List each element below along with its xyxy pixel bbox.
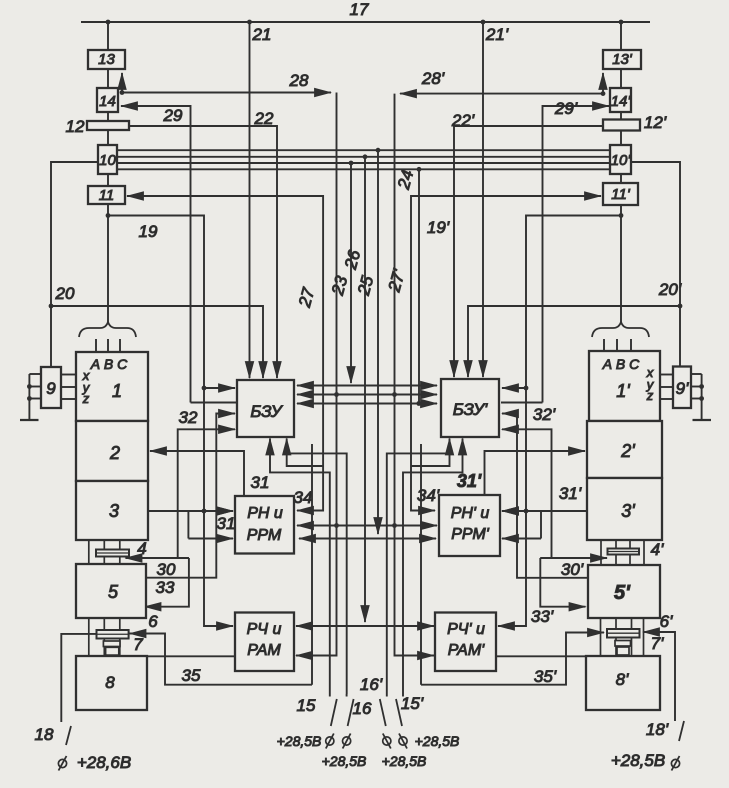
svg-text:14': 14' bbox=[611, 93, 632, 110]
svg-text:15': 15' bbox=[401, 694, 424, 713]
wire 28' horizontal bbox=[400, 93, 603, 95]
svg-text:22': 22' bbox=[451, 111, 475, 130]
cross line 525 arrow into RN' i RRM' bbox=[415, 525, 437, 527]
cross line B between BZU and BZU' bbox=[297, 394, 437, 396]
svg-text:29: 29 bbox=[163, 106, 183, 125]
block RN i RRM bbox=[235, 496, 294, 554]
svg-text:РН и: РН и bbox=[247, 505, 283, 522]
box 9' input taps bbox=[660, 374, 702, 399]
box 14' bbox=[610, 88, 631, 112]
svg-text:33': 33' bbox=[531, 607, 554, 626]
box 8' bbox=[586, 656, 660, 710]
label xyz in box 1' bbox=[646, 365, 655, 403]
coupling 4 stubs bbox=[89, 540, 120, 564]
box 13 bbox=[88, 50, 125, 69]
box 9 input taps bbox=[29, 374, 76, 399]
wire 20' bbox=[468, 306, 680, 377]
label RCh i RAM bbox=[247, 621, 282, 659]
wire 20 bbox=[51, 306, 263, 378]
coupling 7' small block bbox=[617, 647, 629, 655]
wire 21 bbox=[249, 22, 251, 378]
svg-text:19': 19' bbox=[427, 218, 450, 237]
wire 18' arrow into clutch 6' bbox=[643, 631, 658, 633]
ground left bbox=[20, 374, 39, 420]
wire 19' bbox=[498, 216, 621, 627]
wire 15 to BZU bottom bbox=[270, 439, 330, 695]
block RN' i RRM' bbox=[439, 495, 500, 556]
block BZU bbox=[237, 380, 294, 437]
wire 26 bbox=[364, 157, 366, 622]
svg-text:14: 14 bbox=[99, 93, 116, 110]
svg-text:16': 16' bbox=[360, 675, 383, 694]
bus of four lines between box 10 and box 10' bbox=[117, 150, 610, 169]
svg-text:22: 22 bbox=[254, 109, 274, 128]
svg-text:РН' и: РН' и bbox=[451, 505, 490, 522]
wire 4 arrow to clutch bbox=[126, 557, 189, 559]
svg-text:+28,5В: +28,5В bbox=[322, 753, 367, 769]
svg-text:29': 29' bbox=[554, 99, 578, 118]
wire 25 bbox=[377, 150, 379, 534]
switch 18' bbox=[671, 721, 684, 771]
wire 28' vertical bbox=[395, 94, 435, 656]
coupling 7' small bar bbox=[615, 641, 631, 647]
svg-text:+28,5В: +28,5В bbox=[277, 733, 322, 749]
svg-text:z: z bbox=[82, 391, 90, 406]
box 9' bbox=[673, 367, 691, 409]
svg-text:+28,5В: +28,5В bbox=[382, 753, 427, 769]
wire 29 bbox=[121, 106, 191, 403]
svg-text:РЧ' и: РЧ' и bbox=[447, 621, 485, 638]
wire 32' bbox=[502, 429, 552, 558]
wire 25 arrow into RN i RRM bbox=[299, 538, 320, 540]
wire 27 from box 11 bbox=[127, 196, 323, 466]
svg-text:30: 30 bbox=[157, 560, 176, 579]
svg-text:+28,5В: +28,5В bbox=[415, 733, 460, 749]
wire 18' bbox=[658, 632, 675, 721]
svg-text:17: 17 bbox=[350, 0, 369, 19]
coupling 4' stubs bbox=[601, 540, 644, 565]
wire 24 bbox=[418, 169, 420, 403]
svg-text:+28,5В: +28,5В bbox=[611, 751, 665, 770]
brace over box 1' bbox=[592, 322, 649, 337]
svg-text:10': 10' bbox=[611, 152, 632, 169]
wire 30' from box 5' up to BZU' bbox=[502, 414, 588, 578]
label RN' i RRM' bbox=[451, 505, 490, 543]
switch 15' bbox=[396, 694, 407, 749]
ground right bbox=[693, 374, 712, 420]
switch 15 bbox=[326, 694, 337, 749]
coupling 7 small bar bbox=[103, 641, 120, 647]
label RCh' i RAM' bbox=[447, 621, 485, 659]
svg-text:5: 5 bbox=[108, 582, 119, 602]
box 13' bbox=[603, 50, 641, 69]
svg-text:12': 12' bbox=[644, 113, 667, 132]
label xyz in box 1 bbox=[82, 368, 91, 406]
block RCh i RAM bbox=[235, 613, 294, 672]
box 2 bbox=[76, 421, 148, 481]
svg-text:8': 8' bbox=[616, 670, 629, 689]
wire 19' arrow into RN' i RRM' bbox=[502, 510, 526, 512]
svg-text:9: 9 bbox=[46, 379, 56, 398]
block BZU' bbox=[441, 379, 499, 437]
svg-text:16: 16 bbox=[353, 699, 372, 718]
wire 22 bbox=[129, 126, 277, 378]
svg-text:33: 33 bbox=[156, 578, 175, 597]
wire 30 from box 5 up to BZU bbox=[146, 414, 235, 578]
svg-text:+28,6В: +28,6В bbox=[77, 753, 131, 772]
svg-text:А В С: А В С bbox=[90, 356, 128, 372]
svg-text:3: 3 bbox=[109, 501, 119, 521]
wire 31 from box 3 to RN i RRM bbox=[148, 510, 233, 512]
box 1 input ticks bbox=[96, 339, 120, 352]
wire 29' bbox=[543, 106, 610, 403]
svg-text:31: 31 bbox=[251, 473, 270, 492]
cross line B arrow into BZU' bbox=[415, 394, 437, 396]
coupling 7 small block bbox=[106, 647, 119, 655]
svg-text:13: 13 bbox=[98, 51, 115, 68]
wire 35' bbox=[421, 633, 604, 685]
arrow stub from wire 28' up to box 13' bbox=[602, 73, 604, 94]
svg-text:32': 32' bbox=[533, 405, 556, 424]
svg-text:3': 3' bbox=[621, 501, 635, 521]
svg-text:8: 8 bbox=[105, 673, 115, 692]
box 1' input ticks bbox=[604, 339, 631, 351]
wire 17 top bus bbox=[81, 21, 650, 23]
wire 25 arrow into RN' i RRM' bbox=[415, 538, 436, 540]
svg-text:1': 1' bbox=[616, 381, 630, 401]
svg-text:9': 9' bbox=[676, 379, 689, 398]
svg-text:11': 11' bbox=[611, 186, 631, 203]
cross line B arrow into BZU bbox=[297, 394, 320, 396]
svg-text:31: 31 bbox=[217, 514, 236, 533]
svg-text:31': 31' bbox=[559, 484, 582, 503]
wire 27' into BZU' bottom bbox=[411, 439, 450, 467]
svg-text:7: 7 bbox=[133, 635, 143, 654]
wire 31' branch vertical bbox=[540, 511, 542, 539]
box 12 bbox=[87, 121, 129, 130]
wire 16' upper segment bbox=[387, 453, 450, 694]
svg-text:32: 32 bbox=[179, 408, 198, 427]
wire 28 bbox=[122, 92, 331, 94]
svg-text:РАМ': РАМ' bbox=[448, 642, 485, 659]
svg-text:35': 35' bbox=[534, 667, 557, 686]
cross line 525 arrow into RN i RRM bbox=[297, 525, 320, 527]
svg-text:2: 2 bbox=[109, 443, 120, 463]
wire 34' from 27' into RN' i RRM' at 511 bbox=[411, 466, 435, 511]
box 10' bbox=[610, 145, 631, 174]
svg-text:z: z bbox=[646, 388, 654, 403]
wire 27 into BZU bottom bbox=[287, 439, 323, 467]
box 5' bbox=[588, 565, 660, 618]
svg-text:20': 20' bbox=[658, 280, 682, 299]
svg-text:БЗУ': БЗУ' bbox=[453, 400, 488, 419]
wire 26 arrow into RCh i RAM bbox=[296, 625, 320, 627]
box 8 bbox=[76, 656, 147, 710]
block RCh' i RAM' bbox=[435, 613, 496, 672]
cross line A arrow into BZU' bbox=[415, 385, 437, 387]
wire - left main vertical through 13,14,12,10,11 bbox=[107, 22, 109, 322]
svg-text:РЧ и: РЧ и bbox=[247, 621, 282, 638]
svg-text:19: 19 bbox=[139, 222, 158, 241]
wire - right main vertical through 13',14',12',10',11' bbox=[620, 22, 622, 322]
box 2' bbox=[587, 421, 662, 478]
svg-text:18: 18 bbox=[35, 725, 54, 744]
svg-text:6: 6 bbox=[148, 612, 158, 631]
svg-text:2': 2' bbox=[620, 441, 635, 461]
wire 32 bbox=[178, 429, 235, 558]
cross line C arrow into BZU' bbox=[415, 403, 437, 405]
svg-text:7': 7' bbox=[651, 634, 664, 653]
box 1' bbox=[589, 351, 660, 421]
wire 26 cross line to RCh blocks bbox=[296, 625, 434, 627]
box 10 bbox=[98, 145, 117, 174]
switch 18 bbox=[58, 726, 71, 771]
coupling 4 bar bbox=[96, 550, 129, 557]
wire 18 bbox=[61, 634, 96, 722]
wire into RN i RRM at 538 bbox=[188, 538, 233, 540]
svg-text:4: 4 bbox=[137, 539, 146, 558]
wire from box 8' to RCh' i RAM' bbox=[496, 655, 586, 657]
wire 22' bbox=[454, 126, 603, 377]
svg-text:18': 18' bbox=[646, 720, 669, 739]
svg-text:20: 20 bbox=[55, 284, 75, 303]
svg-text:28': 28' bbox=[421, 69, 445, 88]
svg-text:34: 34 bbox=[294, 488, 313, 507]
wire from box 10' right to node 20' bbox=[631, 162, 680, 367]
box 14 bbox=[97, 88, 118, 112]
wire 34 from 27 into RN i RRM at 511 bbox=[297, 466, 323, 511]
wire 26 arrow into RCh' i RAM' bbox=[410, 625, 434, 627]
arrow stub from wire 28 up to box 13 bbox=[121, 73, 123, 93]
coupling 6 bar bbox=[97, 630, 129, 639]
svg-text:10: 10 bbox=[99, 152, 116, 169]
wire 15' to BZU' bottom bbox=[403, 439, 463, 695]
svg-text:5': 5' bbox=[614, 582, 631, 604]
cross line C arrow into BZU bbox=[297, 403, 320, 405]
wire 34' vertical bbox=[420, 444, 422, 685]
cross line A arrow into BZU bbox=[297, 385, 320, 387]
svg-text:28: 28 bbox=[289, 71, 309, 90]
cross line A between BZU and BZU' bbox=[297, 385, 437, 387]
svg-text:РАМ: РАМ bbox=[247, 642, 281, 659]
wire into RN' i RRM' at 538 bbox=[502, 538, 541, 540]
svg-text:21: 21 bbox=[252, 25, 272, 44]
svg-text:4': 4' bbox=[651, 540, 664, 559]
coupling 4' bar bbox=[608, 549, 640, 555]
wire 23 bbox=[350, 163, 352, 383]
svg-text:13': 13' bbox=[612, 51, 633, 68]
box 12' bbox=[603, 120, 640, 131]
brace over box 1 bbox=[79, 322, 136, 337]
wire 25 cross line to RN blocks bbox=[299, 538, 436, 540]
box 9 bbox=[41, 367, 61, 408]
label RN i RRM bbox=[247, 505, 283, 544]
wire 27' from box 11' bbox=[411, 196, 601, 466]
svg-text:31': 31' bbox=[457, 471, 482, 491]
wire 19 arrow into BZU bbox=[204, 387, 235, 389]
svg-text:12: 12 bbox=[66, 117, 85, 136]
coupling 6' bar bbox=[607, 629, 640, 638]
wire 19 arrow into RN i RRM bbox=[204, 510, 233, 512]
svg-text:21': 21' bbox=[485, 25, 509, 44]
svg-text:РРМ: РРМ bbox=[247, 527, 282, 544]
coupling 6 stubs bbox=[89, 618, 120, 656]
svg-text:30': 30' bbox=[561, 560, 584, 579]
svg-text:15: 15 bbox=[297, 696, 316, 715]
wire 19 bbox=[108, 216, 233, 627]
wire 33' bbox=[540, 558, 585, 607]
wire 33 bbox=[145, 558, 189, 607]
wire 34 vertical bbox=[311, 444, 313, 685]
wire from box 8 to RCh i RAM bbox=[147, 655, 235, 657]
wire 29' into BZU' bbox=[501, 402, 543, 404]
wire from box 10 left to node 20 bbox=[51, 162, 98, 367]
switch 16' bbox=[380, 694, 391, 749]
wire 31' from RN' i RRM' to box 2' bbox=[485, 451, 586, 496]
wire 35 bbox=[130, 634, 313, 685]
box 5 bbox=[76, 564, 146, 618]
wire 19' arrow into BZU' bbox=[502, 387, 526, 389]
wire 21' bbox=[482, 22, 484, 377]
cross line at 525 between RN blocks bbox=[297, 525, 437, 527]
svg-text:БЗУ: БЗУ bbox=[250, 402, 283, 421]
wire 29 into BZU bbox=[191, 402, 237, 404]
wire 28 vertical bbox=[296, 93, 337, 656]
box 11' bbox=[603, 183, 638, 205]
wire 31 branch vertical bbox=[187, 511, 189, 539]
wire 31' from box 3' to RN' i RRM' bbox=[502, 510, 587, 512]
svg-text:А В С: А В С bbox=[602, 356, 640, 372]
box 3 bbox=[76, 481, 148, 540]
switch 16 bbox=[343, 694, 354, 749]
svg-text:РРМ': РРМ' bbox=[451, 526, 489, 543]
wire 4' arrow to clutch bbox=[540, 557, 607, 559]
svg-text:11: 11 bbox=[99, 187, 115, 204]
cross line C between BZU and BZU' bbox=[297, 403, 437, 405]
svg-text:6': 6' bbox=[660, 612, 673, 631]
box 1 bbox=[76, 352, 148, 421]
box 11 bbox=[88, 186, 125, 204]
wire 31 from RN i RRM to box 2 bbox=[150, 451, 244, 496]
wire 16 upper segment bbox=[287, 453, 347, 694]
box 3' bbox=[587, 478, 662, 540]
coupling 6' stubs bbox=[601, 618, 644, 656]
svg-text:34': 34' bbox=[417, 486, 440, 505]
svg-text:35: 35 bbox=[182, 666, 201, 685]
svg-text:1: 1 bbox=[112, 381, 122, 401]
